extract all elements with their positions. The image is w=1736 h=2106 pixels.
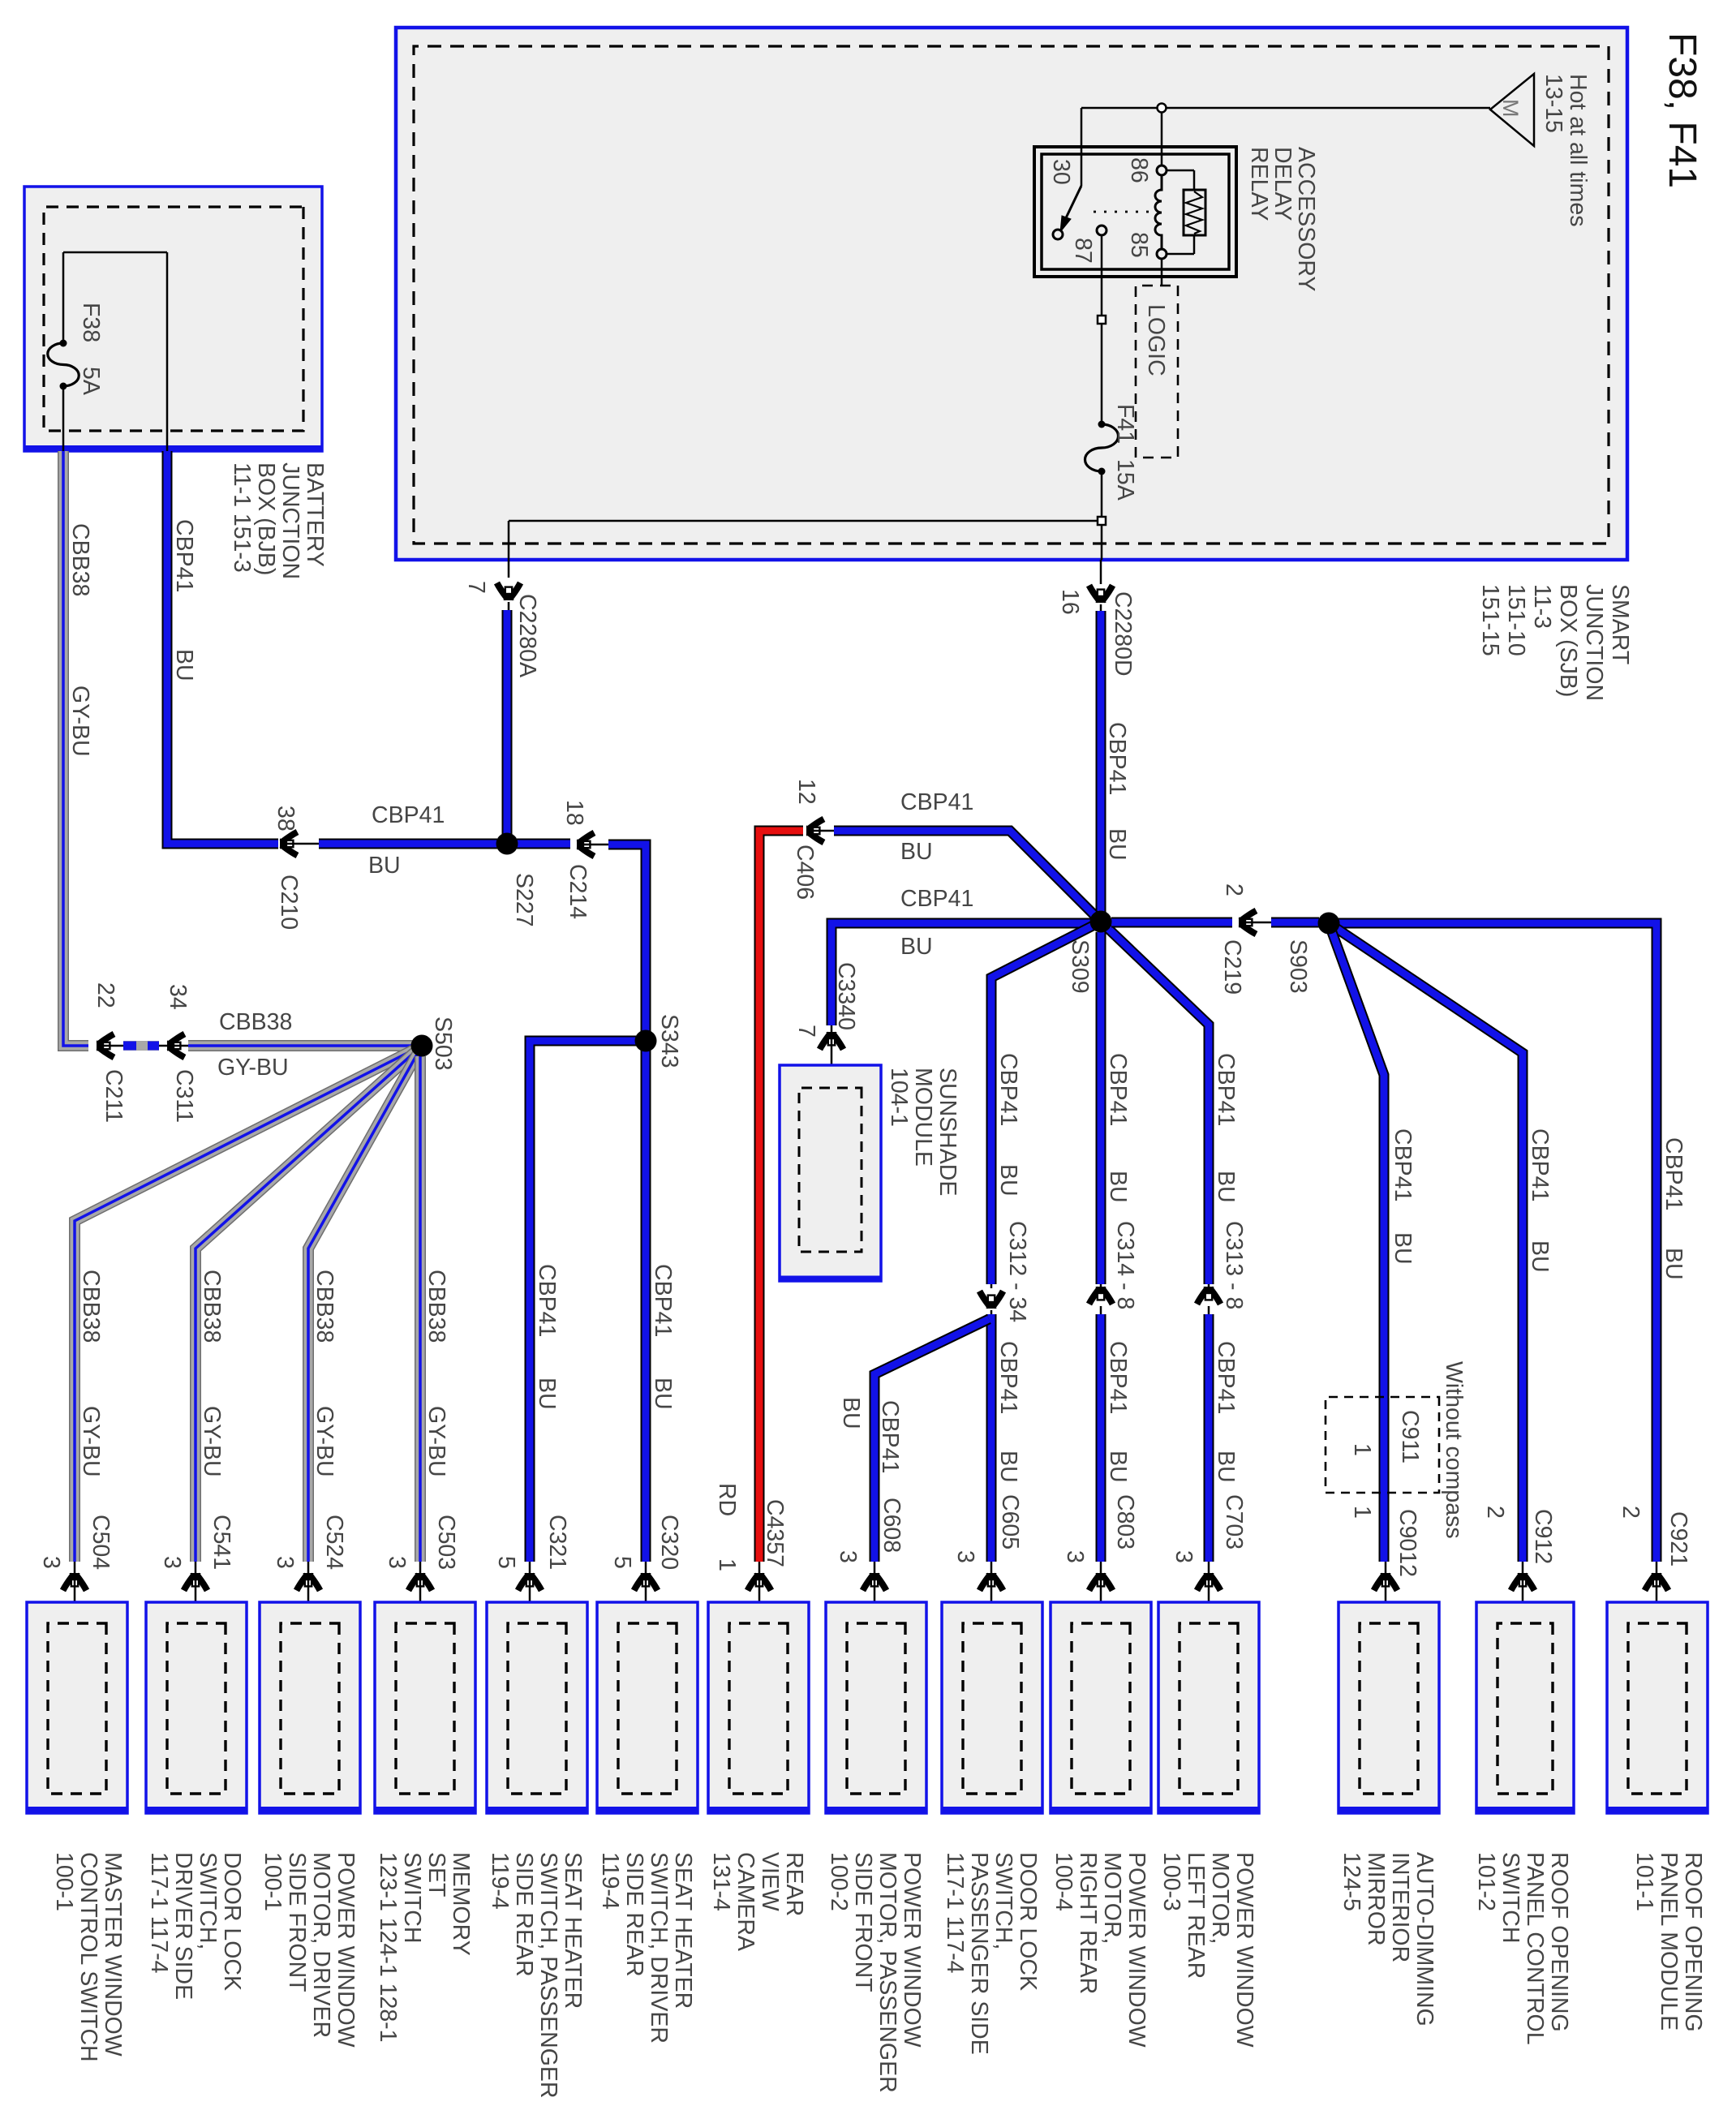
label CBP41 BU on C321 wire: [534, 1264, 560, 1410]
wire dashed inline C211 to C311: [123, 1041, 159, 1051]
relay K1 ACCESSORY DELAY RELAY box: [1034, 147, 1236, 277]
svg-text:BU: BU: [1661, 1248, 1687, 1280]
svg-text:SWITCH: SWITCH: [1498, 1852, 1523, 1943]
svg-text:101-1: 101-1: [1631, 1852, 1657, 1911]
label CBP41 BU C605 pin 3: [952, 1341, 1023, 1563]
svg-text:MIRROR: MIRROR: [1363, 1852, 1389, 1946]
wire C313-8 to C703 power window left rear: [1204, 1314, 1214, 1562]
svg-text:100-1: 100-1: [51, 1852, 77, 1911]
svg-text:LEFT REAR: LEFT REAR: [1183, 1852, 1209, 1979]
logic module dashed box: [1136, 286, 1178, 458]
battery junction box BJB outline: [24, 187, 322, 451]
svg-text:SWITCH,: SWITCH,: [195, 1852, 221, 1949]
component box REAR VIEW CAMERA: [708, 1602, 809, 1813]
label SEAT HEATER SWITCH, DRIVER SIDE REAR 119-4: [597, 1852, 696, 2044]
svg-text:BU: BU: [171, 649, 197, 681]
svg-text:MOTOR,: MOTOR,: [1207, 1852, 1233, 1944]
wire RD red from C406 to C4357: [759, 831, 803, 1562]
svg-text:119-4: 119-4: [597, 1852, 623, 1910]
svg-text:DRIVER SIDE: DRIVER SIDE: [170, 1852, 196, 2000]
label ACCESSORY DELAY RELAY: [1246, 147, 1319, 291]
svg-text:INTERIOR: INTERIOR: [1387, 1852, 1413, 1962]
svg-text:C314 - 8: C314 - 8: [1112, 1221, 1138, 1309]
svg-text:Without compass: Without compass: [1441, 1361, 1467, 1539]
svg-text:SIDE FRONT: SIDE FRONT: [850, 1852, 876, 1992]
svg-text:151-15: 151-15: [1477, 584, 1503, 656]
svg-text:124-5: 124-5: [1339, 1852, 1364, 1911]
svg-text:C503: C503: [433, 1515, 459, 1570]
svg-text:CBB38: CBB38: [78, 1270, 104, 1343]
svg-text:CAMERA: CAMERA: [733, 1852, 758, 1951]
svg-text:S309: S309: [1067, 939, 1093, 994]
connector C803: [1089, 1562, 1113, 1625]
svg-text:C312 - 34: C312 - 34: [1004, 1221, 1030, 1322]
svg-text:C311: C311: [171, 1069, 197, 1123]
svg-text:S503: S503: [430, 1016, 456, 1071]
connector C524: [297, 1562, 320, 1625]
connector C311 pin 34: [159, 984, 197, 1123]
svg-text:JUNCTION: JUNCTION: [1581, 584, 1607, 701]
component box DOOR LOCK SWITCH, PASSENGER SIDE: [942, 1602, 1042, 1813]
connector C921: [1645, 1562, 1669, 1625]
svg-text:C4357: C4357: [762, 1499, 788, 1567]
svg-text:2: 2: [1618, 1506, 1644, 1519]
sunshade module box: [780, 1065, 881, 1281]
label AUTO-DIMMING INTERIOR MIRROR 124-5: [1339, 1852, 1437, 2026]
svg-text:CBP41: CBP41: [1105, 1053, 1131, 1126]
svg-text:CBB38: CBB38: [67, 523, 93, 596]
svg-text:101-2: 101-2: [1473, 1852, 1499, 1911]
connector C504: [63, 1562, 87, 1625]
svg-text:13-15: 13-15: [1540, 74, 1566, 133]
fuse F38 5A: [48, 340, 79, 390]
label BU CBP41 C608 pin 3: [835, 1397, 905, 1563]
label DOOR LOCK SWITCH, DRIVER SIDE 117-1 117-4: [146, 1852, 245, 2000]
svg-text:DOOR LOCK: DOOR LOCK: [1015, 1852, 1041, 1991]
svg-text:C2280A: C2280A: [514, 594, 540, 677]
label SUNSHADE MODULE 104-1: [886, 1068, 960, 1196]
svg-text:C2280D: C2280D: [1110, 591, 1136, 677]
wire S309 to C3340 sunshade module: [831, 923, 1090, 1025]
svg-text:GY-BU: GY-BU: [217, 1055, 289, 1081]
svg-text:CONTROL SWITCH: CONTROL SWITCH: [75, 1852, 101, 2062]
svg-text:C320: C320: [656, 1515, 682, 1570]
wire S903 to C921 roof opening panel module: [1339, 923, 1657, 1562]
svg-text:C9012: C9012: [1394, 1509, 1420, 1577]
svg-text:3: 3: [272, 1556, 298, 1569]
label C911 pin 1 inline connector: [1349, 1410, 1423, 1463]
svg-text:BATTERY: BATTERY: [302, 462, 328, 567]
svg-text:F41: F41: [1112, 404, 1138, 444]
svg-text:SIDE REAR: SIDE REAR: [621, 1852, 647, 1977]
svg-text:MASTER WINDOW: MASTER WINDOW: [100, 1852, 126, 2057]
svg-text:CBP41: CBP41: [1661, 1137, 1687, 1210]
svg-text:MODULE: MODULE: [910, 1068, 936, 1167]
connector C321: [518, 1562, 542, 1625]
svg-text:BU: BU: [900, 934, 933, 960]
label CBP41 BU C703 pin 3: [1171, 1341, 1247, 1563]
label SMART JUNCTION BOX (SJB): [1477, 584, 1633, 701]
component box MEMORY SET SWITCH: [375, 1602, 475, 1813]
wire branch down to C2280A: [509, 521, 1098, 578]
wire CBP41 BU from BJB to C210: [167, 451, 278, 844]
svg-text:CBP41: CBP41: [900, 886, 973, 912]
label CBP41 BU on C2280D wire: [1104, 722, 1130, 861]
svg-text:ROOF OPENING: ROOF OPENING: [1680, 1852, 1706, 2032]
wire C219 to S903: [1271, 918, 1319, 928]
wire CBB38 GY-BU S503 to C541: [196, 1046, 422, 1562]
splice square on 87 wire: [1098, 316, 1106, 324]
wire S903 to C912 roof opening panel control switch: [1329, 923, 1523, 1562]
svg-text:LOGIC: LOGIC: [1143, 304, 1169, 376]
connector C605: [980, 1562, 1003, 1625]
connector C211 pin 22: [92, 982, 127, 1123]
label F41 15A: [1112, 404, 1138, 501]
svg-text:1: 1: [714, 1558, 740, 1571]
svg-text:CBB38: CBB38: [219, 1009, 292, 1035]
svg-text:CBP41: CBP41: [650, 1264, 676, 1337]
label CBP41 BU on C9012 wire: [1390, 1128, 1416, 1265]
svg-text:CBB38: CBB38: [423, 1270, 449, 1343]
svg-text:PANEL MODULE: PANEL MODULE: [1656, 1852, 1682, 2031]
svg-text:REAR: REAR: [781, 1852, 807, 1916]
wire CBB38 GY-BU S503 to C503: [415, 1056, 426, 1562]
svg-text:3: 3: [1062, 1550, 1088, 1563]
svg-text:F38, F41: F38, F41: [1661, 32, 1704, 188]
connector C406 pin 12: [792, 779, 834, 900]
svg-text:C214: C214: [565, 864, 591, 919]
connector C9012: [1374, 1562, 1398, 1625]
svg-text:BU: BU: [900, 839, 933, 865]
svg-text:SEAT HEATER: SEAT HEATER: [560, 1852, 586, 2009]
svg-text:ROOF OPENING: ROOF OPENING: [1546, 1852, 1572, 2032]
svg-text:BU: BU: [1213, 1451, 1239, 1483]
connector C3340 pin 7: [793, 962, 859, 1088]
svg-text:100-2: 100-2: [826, 1852, 852, 1911]
label SEAT HEATER SWITCH, PASSENGER SIDE REAR 119-4: [487, 1852, 586, 2099]
wire CBP41 BU from C210 to S227: [319, 839, 497, 849]
wire S343 branch to C321 seat heater passenger: [530, 1041, 637, 1562]
svg-text:5A: 5A: [78, 367, 104, 395]
svg-text:RELAY: RELAY: [1246, 147, 1272, 221]
svg-text:GY-BU: GY-BU: [67, 686, 93, 757]
svg-text:CBP41: CBP41: [1527, 1128, 1553, 1201]
svg-text:GY-BU: GY-BU: [423, 1406, 449, 1477]
label RD C4357 pin 1: [714, 1483, 788, 1571]
component box SEAT HEATER SWITCH, PASSENGER SIDE REAR: [487, 1602, 587, 1813]
svg-text:SET: SET: [423, 1852, 449, 1897]
svg-text:AUTO-DIMMING: AUTO-DIMMING: [1412, 1852, 1437, 2026]
svg-text:C803: C803: [1112, 1494, 1138, 1549]
svg-text:C912: C912: [1530, 1509, 1556, 1564]
label POWER WINDOW MOTOR, LEFT REAR 100-3: [1158, 1852, 1257, 2048]
svg-text:5: 5: [493, 1556, 519, 1569]
component box ROOF OPENING PANEL MODULE: [1607, 1602, 1708, 1813]
relay coil: [1155, 175, 1162, 249]
svg-text:151-10: 151-10: [1503, 584, 1529, 656]
svg-text:100-1: 100-1: [260, 1852, 286, 1911]
connector C703: [1197, 1562, 1221, 1625]
svg-text:C211: C211: [101, 1069, 127, 1123]
svg-text:RIGHT REAR: RIGHT REAR: [1075, 1852, 1101, 1994]
label CBP41 BU rotated on C210-S227 wire: [368, 802, 445, 879]
connector C214 pin 18: [561, 800, 608, 919]
wire S343 to C320 seat heater driver: [641, 1050, 651, 1562]
label CBP41 BU C921 pin 2: [1618, 1137, 1691, 1567]
svg-text:15A: 15A: [1112, 459, 1138, 501]
svg-text:18: 18: [561, 800, 587, 826]
svg-text:3: 3: [38, 1556, 64, 1569]
wire S309 to C219: [1111, 918, 1232, 928]
relay pin 85 terminal: [1157, 249, 1167, 259]
BJB internal feed lines: [63, 252, 167, 451]
svg-text:131-4: 131-4: [708, 1852, 734, 1911]
svg-text:GY-BU: GY-BU: [312, 1406, 337, 1477]
svg-text:3: 3: [835, 1550, 861, 1563]
smart junction box SJB outline: [396, 28, 1627, 560]
svg-text:C605: C605: [997, 1494, 1023, 1549]
svg-text:86: 86: [1126, 157, 1152, 183]
svg-text:CBP41: CBP41: [995, 1341, 1021, 1414]
svg-text:100-3: 100-3: [1158, 1852, 1184, 1911]
svg-text:CBP41: CBP41: [1213, 1341, 1239, 1414]
component box SEAT HEATER SWITCH, DRIVER SIDE REAR: [597, 1602, 698, 1813]
svg-text:C3340: C3340: [833, 962, 859, 1030]
svg-text:BU: BU: [1213, 1171, 1239, 1203]
svg-text:BU: BU: [368, 853, 401, 879]
svg-text:BOX (SJB): BOX (SJB): [1555, 584, 1581, 697]
component box DOOR LOCK SWITCH, DRIVER SIDE: [146, 1602, 247, 1813]
connector C312-34: [980, 1284, 1003, 1314]
label POWER WINDOW MOTOR, DRIVER SIDE FRONT 100-1: [260, 1852, 359, 2048]
connector C2280A pin 7: [463, 581, 540, 677]
svg-text:7: 7: [793, 1025, 819, 1038]
label ROOF OPENING PANEL MODULE 101-1: [1631, 1852, 1706, 2032]
svg-text:POWER WINDOW: POWER WINDOW: [1124, 1852, 1149, 2048]
svg-text:119-4: 119-4: [487, 1852, 513, 1910]
svg-text:C406: C406: [792, 845, 818, 900]
junction feed branch: [1158, 104, 1167, 113]
svg-text:F38: F38: [78, 303, 104, 342]
svg-text:34: 34: [165, 984, 191, 1010]
wire C214 to S343: [608, 845, 646, 1041]
wire relay 87 to fuse F41: [1101, 235, 1103, 560]
relay resistor parallel: [1167, 170, 1205, 254]
wire C312-34 to C605 door lock passenger: [986, 1314, 997, 1562]
label C320 pin 5: [609, 1515, 682, 1570]
label C321 pin 5: [493, 1515, 570, 1570]
svg-text:117-1 117-4: 117-1 117-4: [942, 1852, 968, 1974]
svg-text:3: 3: [159, 1556, 185, 1569]
fuse F41 15A: [1085, 421, 1119, 475]
label C9012 pin 1: [1349, 1506, 1420, 1577]
svg-text:CBP41: CBP41: [171, 519, 197, 592]
svg-text:11-1 151-3: 11-1 151-3: [229, 462, 255, 573]
svg-text:SWITCH: SWITCH: [399, 1852, 425, 1943]
svg-text:MOTOR, DRIVER: MOTOR, DRIVER: [308, 1852, 334, 2038]
without compass dashed box: [1326, 1397, 1439, 1493]
component box POWER WINDOW MOTOR, DRIVER SIDE FRONT: [260, 1602, 360, 1813]
svg-text:CBP41: CBP41: [1104, 722, 1130, 795]
label CBP41 BU before C312-34: [995, 1053, 1021, 1197]
svg-text:DELAY: DELAY: [1270, 147, 1296, 221]
wire CBB38 GY-BU S503 to C504: [75, 1046, 422, 1562]
label CBP41 BU on BJB output wire: [171, 519, 197, 681]
connector C541: [184, 1562, 208, 1625]
svg-text:BU: BU: [534, 1377, 560, 1410]
svg-text:123-1 124-1 128-1: 123-1 124-1 128-1: [375, 1852, 401, 2043]
svg-text:7: 7: [463, 581, 489, 594]
relay pin 86 terminal: [1157, 165, 1167, 175]
svg-text:117-1 117-4: 117-1 117-4: [146, 1852, 172, 1974]
svg-text:30: 30: [1048, 159, 1074, 185]
svg-text:ACCESSORY: ACCESSORY: [1293, 147, 1319, 291]
svg-text:GY-BU: GY-BU: [199, 1406, 225, 1477]
label CBB38 GY-BU on BJB gray output: [67, 523, 93, 757]
label CBP41 BU before C314-8: [1105, 1053, 1131, 1203]
wire CBB38 GY-BU from C311 to S503: [188, 1040, 412, 1051]
connector C313-8: [1197, 1284, 1221, 1314]
svg-text:3: 3: [952, 1550, 978, 1563]
svg-text:SMART: SMART: [1607, 584, 1633, 664]
svg-text:CBP41: CBP41: [1105, 1341, 1131, 1414]
svg-text:CBP41: CBP41: [877, 1400, 903, 1473]
label ROOF OPENING PANEL CONTROL SWITCH 101-2: [1473, 1852, 1572, 2045]
svg-text:DOOR LOCK: DOOR LOCK: [219, 1852, 245, 1991]
connector C912: [1511, 1562, 1535, 1625]
wire S309 to C314-8: [1096, 932, 1106, 1284]
connector C503: [409, 1562, 432, 1625]
wire split to C608 power window passenger: [874, 1319, 989, 1562]
svg-text:PANEL CONTROL: PANEL CONTROL: [1522, 1852, 1548, 2045]
svg-text:CBP41: CBP41: [534, 1264, 560, 1337]
svg-text:CBP41: CBP41: [372, 802, 445, 828]
svg-text:POWER WINDOW: POWER WINDOW: [899, 1852, 925, 2048]
relay pin 30 switch blade: [1060, 186, 1081, 232]
svg-text:5: 5: [609, 1556, 635, 1569]
svg-text:CBP41: CBP41: [1390, 1128, 1416, 1201]
svg-text:C219: C219: [1219, 939, 1245, 995]
connector C4357: [748, 1562, 771, 1625]
wire CBP41 BU from C2280D to S309: [1096, 611, 1106, 922]
svg-text:38: 38: [273, 806, 299, 832]
svg-text:RD: RD: [714, 1483, 740, 1516]
svg-text:2: 2: [1482, 1506, 1508, 1519]
wire S903 to C9012 auto-dimming mirror: [1329, 923, 1384, 1562]
svg-text:MEMORY: MEMORY: [448, 1852, 474, 1956]
svg-text:C313 - 8: C313 - 8: [1221, 1221, 1247, 1309]
label CBP41 BU C803 pin 3: [1062, 1341, 1138, 1563]
svg-text:BOX (BJB): BOX (BJB): [253, 462, 279, 575]
svg-text:PASSENGER SIDE: PASSENGER SIDE: [966, 1852, 992, 2055]
svg-text:CBP41: CBP41: [900, 789, 973, 815]
relay dotted link coil to armature: [1087, 211, 1149, 213]
label CBP41 BU on C320 wire: [650, 1264, 676, 1410]
svg-text:SWITCH,: SWITCH,: [990, 1852, 1016, 1949]
label CBB38 GY-BU C524 pin 3: [272, 1270, 347, 1570]
wire C314-8 to C803 power window right rear: [1096, 1314, 1106, 1562]
component box ROOF OPENING PANEL CONTROL SWITCH: [1476, 1602, 1574, 1813]
relay pin 30 contact terminal: [1053, 230, 1063, 239]
svg-text:C911: C911: [1397, 1410, 1423, 1463]
svg-text:3: 3: [1171, 1550, 1197, 1563]
svg-text:CBP41: CBP41: [1213, 1053, 1239, 1126]
svg-text:SIDE REAR: SIDE REAR: [511, 1852, 537, 1977]
label BATTERY JUNCTION BOX (BJB): [229, 462, 328, 579]
svg-text:JUNCTION: JUNCTION: [277, 462, 303, 579]
svg-text:BU: BU: [838, 1397, 864, 1429]
label CBB38 GY-BU C504 pin 3: [38, 1270, 114, 1570]
svg-text:BU: BU: [995, 1451, 1021, 1483]
wire relay 85 to logic: [1161, 259, 1163, 286]
splice dot S503: [411, 1035, 433, 1057]
svg-text:C608: C608: [879, 1498, 905, 1553]
svg-text:MOTOR, PASSENGER: MOTOR, PASSENGER: [874, 1852, 900, 2093]
svg-text:1: 1: [1349, 1506, 1375, 1519]
svg-text:S903: S903: [1285, 939, 1311, 994]
svg-text:Hot at all times: Hot at all times: [1565, 74, 1591, 226]
svg-text:S343: S343: [656, 1014, 682, 1068]
svg-text:C210: C210: [276, 875, 302, 930]
svg-text:CBB38: CBB38: [199, 1270, 225, 1343]
label CBB38 GY-BU rotated on C311-S503 wire: [217, 1009, 292, 1081]
label REAR VIEW CAMERA 131-4: [708, 1852, 807, 1951]
label MASTER WINDOW CONTROL SWITCH 100-1: [51, 1852, 126, 2062]
svg-text:2: 2: [1221, 883, 1247, 896]
svg-text:SWITCH, PASSENGER: SWITCH, PASSENGER: [535, 1852, 561, 2099]
svg-text:16: 16: [1057, 589, 1083, 615]
svg-text:22: 22: [92, 982, 118, 1008]
svg-text:104-1: 104-1: [886, 1068, 912, 1127]
label CBP41 BU C912 pin 2: [1482, 1128, 1556, 1564]
label POWER WINDOW MOTOR, RIGHT REAR 100-4: [1051, 1852, 1149, 2048]
svg-text:M: M: [1498, 99, 1523, 118]
label CBP41 BU rotated on C406 wire: [900, 789, 973, 865]
svg-text:SWITCH, DRIVER: SWITCH, DRIVER: [646, 1852, 672, 2044]
svg-text:C504: C504: [88, 1515, 114, 1570]
label CBB38 GY-BU C503 pin 3: [384, 1270, 459, 1570]
svg-text:12: 12: [793, 779, 819, 805]
splice dot S903: [1318, 913, 1340, 935]
label Hot at all times 13-15: [1540, 74, 1591, 226]
svg-text:BU: BU: [1527, 1240, 1553, 1273]
splice dot S227: [496, 833, 518, 855]
svg-text:BU: BU: [650, 1377, 676, 1410]
connector C2280D pin 16: [1057, 560, 1136, 677]
svg-text:POWER WINDOW: POWER WINDOW: [333, 1852, 359, 2048]
svg-text:POWER WINDOW: POWER WINDOW: [1231, 1852, 1257, 2048]
svg-text:S227: S227: [511, 873, 537, 927]
wire CBB38 GY-BU S503 to C524: [308, 1046, 422, 1562]
svg-text:11-3: 11-3: [1529, 584, 1555, 629]
svg-text:BU: BU: [1104, 828, 1130, 861]
splice square junction C2280A branch: [1098, 517, 1106, 525]
svg-text:85: 85: [1126, 232, 1152, 258]
svg-text:MOTOR,: MOTOR,: [1099, 1852, 1125, 1944]
relay pin labels 30 86 85 87: [1048, 157, 1152, 264]
label POWER WINDOW MOTOR, PASSENGER SIDE FRONT 100-2: [826, 1852, 925, 2093]
label CBP41 BU rotated on C3340 wire: [900, 886, 973, 960]
wire CBP41 BU from C2280A to S227: [502, 610, 513, 836]
svg-text:SEAT HEATER: SEAT HEATER: [670, 1852, 696, 2009]
svg-text:SIDE FRONT: SIDE FRONT: [284, 1852, 310, 1992]
svg-text:C703: C703: [1221, 1494, 1247, 1549]
relay pin 87 terminal: [1097, 226, 1106, 235]
svg-text:BU: BU: [1105, 1451, 1131, 1483]
connector C219 pin 2: [1219, 883, 1271, 995]
label CBB38 GY-BU C541 pin 3: [159, 1270, 234, 1570]
component box POWER WINDOW MOTOR, LEFT REAR: [1158, 1602, 1259, 1813]
